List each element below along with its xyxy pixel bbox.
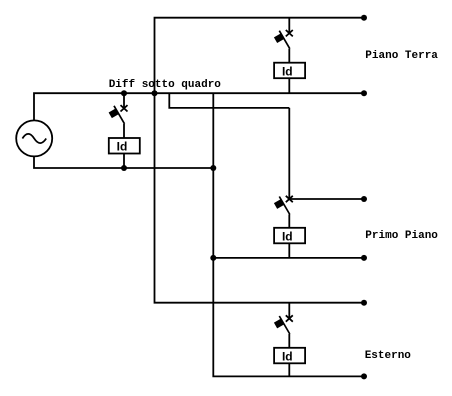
wire: upper lead bbox=[288, 18, 290, 34]
wire: middle feeder drop and Esterno bottom rail bbox=[213, 93, 364, 376]
wire: blade to Id box bbox=[288, 49, 290, 63]
differential sensor pad bbox=[109, 108, 119, 118]
wire: source top lead and phase rail (Piano Terra bottom rail) bbox=[34, 93, 364, 120]
AC source G1 bbox=[16, 120, 52, 156]
switch blade bbox=[114, 106, 125, 124]
terminal: Esterno bottom bbox=[361, 373, 367, 379]
differential sensor pad bbox=[274, 33, 284, 43]
Id box bbox=[274, 228, 305, 244]
svg-text:Id: Id bbox=[282, 229, 293, 243]
wire: Primo Piano top rail bbox=[289, 198, 364, 200]
svg-text:Primo Piano: Primo Piano bbox=[365, 230, 438, 242]
differential sensor pad bbox=[274, 199, 284, 209]
junction: main breaker top on phase rail bbox=[121, 90, 127, 96]
differential breaker QF main (Diff sotto quadro) bbox=[109, 93, 140, 168]
wire: Piano Terra top rail, left feeder drop, Esterno top rail bbox=[155, 18, 365, 303]
wire: Primo Piano bottom rail bbox=[213, 257, 364, 259]
differential sensor pad bbox=[274, 319, 284, 329]
switch blade bbox=[279, 31, 290, 49]
breaker contact cross bbox=[286, 196, 293, 202]
junction: Primo Piano bottom rail at middle feeder bbox=[210, 255, 216, 261]
svg-text:Id: Id bbox=[117, 140, 128, 154]
svg-text:Esterno: Esterno bbox=[365, 350, 412, 362]
terminal: Piano Terra top bbox=[361, 15, 367, 21]
switch blade bbox=[279, 316, 290, 334]
differential breaker QF1 (Piano Terra) bbox=[274, 18, 305, 94]
junction: neutral rail at middle feeder bbox=[210, 165, 216, 171]
wire: blade to Id box bbox=[288, 334, 290, 348]
svg-text:Diff sotto quadro: Diff sotto quadro bbox=[109, 79, 222, 91]
wire: tap from phase rail to Primo Piano feeder (elbow) bbox=[169, 93, 289, 108]
wire: Id box to lower rail bbox=[288, 243, 290, 258]
wire: blade to Id box bbox=[123, 124, 125, 138]
wire: upper lead bbox=[123, 93, 125, 108]
differential breaker QF3 (Esterno) bbox=[274, 303, 305, 377]
wire: upper lead bbox=[288, 108, 290, 199]
breaker contact cross bbox=[286, 30, 293, 36]
breaker contact cross bbox=[121, 105, 128, 111]
differential breaker QF2 (Primo Piano) bbox=[274, 108, 305, 258]
switch blade bbox=[279, 197, 290, 215]
svg-text:Id: Id bbox=[282, 64, 293, 78]
terminal: Esterno top bbox=[361, 300, 367, 306]
Id box bbox=[274, 348, 305, 364]
Id box bbox=[109, 138, 140, 154]
terminal: Primo Piano top bbox=[361, 196, 367, 202]
wire: source bottom lead and neutral rail bbox=[34, 157, 213, 169]
breaker contact cross bbox=[286, 315, 293, 321]
svg-text:Id: Id bbox=[282, 349, 293, 363]
terminal: Primo Piano bottom bbox=[361, 255, 367, 261]
wire: Id box to lower rail bbox=[288, 363, 290, 376]
wire: Id box to lower rail bbox=[288, 78, 290, 93]
Id box bbox=[274, 63, 305, 78]
junction: main breaker bottom on neutral rail bbox=[121, 165, 127, 171]
junction: left feeder on phase rail bbox=[152, 90, 158, 96]
wire: blade to Id box bbox=[288, 215, 290, 228]
svg-text:Piano Terra: Piano Terra bbox=[365, 50, 438, 62]
wire: Id box to lower rail bbox=[123, 154, 125, 169]
wire: upper lead bbox=[288, 303, 290, 319]
terminal: Piano Terra bottom bbox=[361, 90, 367, 96]
